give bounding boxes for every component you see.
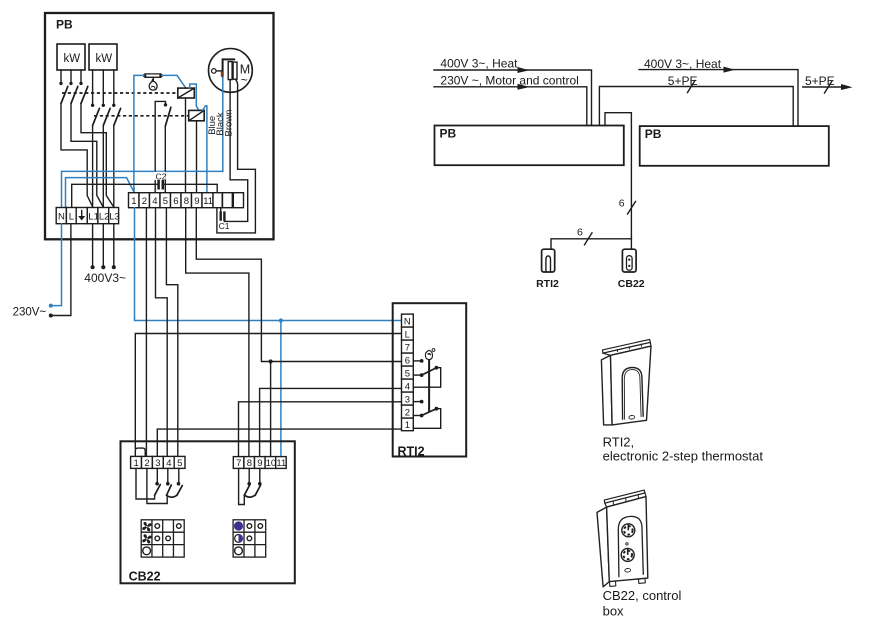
svg-text:RTI2: RTI2	[398, 445, 425, 459]
svg-text:RTI2: RTI2	[536, 278, 559, 290]
wire PB terminal 4 to CB22 terminal 4	[156, 208, 168, 457]
svg-text:6: 6	[619, 198, 625, 210]
svg-text:N: N	[58, 212, 65, 223]
svg-text:1: 1	[405, 420, 410, 431]
wire motor blue lead	[222, 77, 224, 171]
svg-text:CB22: CB22	[618, 278, 645, 290]
svg-text:PB: PB	[440, 127, 457, 141]
svg-text:PB: PB	[645, 127, 662, 141]
switch S-C2 contact dot	[164, 103, 167, 106]
feed line 400V to PB unit 1	[434, 70, 592, 126]
svg-text:10: 10	[266, 458, 277, 469]
wire K2 pole3 to terminal L3	[113, 126, 115, 208]
wire PB terminal 5 to CB22 terminal 5	[166, 208, 177, 457]
wire N supply (blue) from terminal N to 230V feed	[52, 224, 62, 306]
switch SW1 blade	[155, 485, 161, 496]
wire PB terminal 8 to CB22 terminal 8	[186, 208, 249, 457]
wire blue: N to terminal 1	[66, 178, 135, 208]
wire K2 coil A1 to terminal 9	[196, 121, 198, 193]
SECTION: RTI2 box	[393, 303, 467, 458]
svg-text:2: 2	[405, 408, 410, 419]
switch SW2 common from terminal 2	[147, 468, 167, 503]
svg-text:5: 5	[405, 369, 410, 380]
switch S-C2 blade	[165, 107, 171, 126]
motor winding 2	[233, 62, 237, 79]
relay coil K1	[178, 88, 195, 98]
svg-text:PB: PB	[56, 18, 73, 32]
slash mark 5+PE outgoing	[825, 81, 833, 93]
cable 6-core from PB 1 to CB22	[605, 113, 631, 250]
contact dots K2 poles	[91, 104, 94, 107]
bus wire L to capacitor C2	[72, 184, 158, 207]
contact dots K1 poles	[59, 82, 62, 85]
terminal numbers X2	[131, 196, 213, 207]
small circles right grid	[247, 524, 263, 541]
svg-text:8: 8	[184, 196, 189, 207]
wire L3 to 400V feed	[113, 224, 115, 266]
svg-text:CB22, control: CB22, control	[603, 588, 682, 603]
relay coil K2	[189, 110, 205, 120]
mechanical link K1 (dashed)	[62, 92, 177, 94]
switch S-C2 riser from terminal 4	[155, 101, 165, 192]
small circles left grid	[155, 524, 181, 541]
wire kW2 leads to contactor K2 poles	[93, 70, 114, 104]
wire L2 to 400V feed	[102, 224, 104, 266]
svg-text:L3: L3	[109, 212, 120, 223]
svg-text:5+PE: 5+PE	[805, 74, 835, 88]
capacitor C1 lead from spare terminal	[220, 208, 222, 212]
terminal strip X1 (N L earth L1 L2 L3)	[56, 208, 118, 224]
svg-text:C1: C1	[219, 221, 230, 231]
svg-text:kW: kW	[96, 53, 113, 65]
svg-text:L1: L1	[88, 212, 99, 223]
sensor bulb symbol	[425, 349, 435, 360]
wire common hook to terminal 4	[413, 368, 440, 388]
node 230V L (dot)	[49, 314, 53, 318]
svg-text:400V 3~, Heat: 400V 3~, Heat	[440, 57, 518, 71]
svg-text:11: 11	[203, 196, 213, 207]
switch SW3 contact from terminal 8	[248, 468, 250, 482]
heater element kW (group 1)	[57, 44, 85, 70]
thermostat switch blade 2-to-common	[422, 409, 437, 416]
switch SW3 blade pair with link	[244, 485, 249, 495]
wire K2 pole1 to terminal L1	[92, 126, 94, 208]
svg-text:7: 7	[236, 458, 241, 469]
wire blue: terminal 1 entry	[133, 188, 135, 193]
sensor link (mechanical)	[428, 360, 430, 412]
heater element kW (group 2)	[89, 44, 117, 70]
sensor stem	[152, 77, 154, 81]
svg-text:C2: C2	[156, 172, 167, 182]
wire blue: lamp right to relay K1 coil top	[162, 75, 186, 88]
off circle left grid	[143, 547, 151, 555]
motor M1 circle	[209, 49, 253, 93]
capacitor C2	[159, 180, 163, 190]
motor winding 1	[228, 62, 232, 80]
switch SW1 common from terminal 1	[136, 468, 155, 499]
fan icon row1	[141, 521, 152, 532]
svg-text:11: 11	[276, 458, 286, 469]
wire branch to CB22 terminal 10	[270, 362, 272, 457]
node 230V N (blue dot)	[49, 304, 53, 308]
switch SW3 common from terminal 7	[239, 468, 245, 504]
wire K1 coil A1 to terminal 8	[185, 98, 187, 193]
ground symbol (earth terminal)	[78, 211, 85, 221]
motor thermal contact	[212, 69, 223, 77]
drawing RTI2 thermostat (3D view)	[601, 339, 651, 425]
unit box PB 2	[640, 126, 829, 166]
svg-text:230V ~, Motor and control: 230V ~, Motor and control	[440, 73, 578, 87]
arrowhead 400V right	[724, 67, 736, 73]
svg-text:7: 7	[405, 343, 410, 354]
switch SW2 blade pair with link	[167, 485, 172, 495]
switch SW3 contact from terminal 9	[259, 468, 261, 482]
svg-text:2: 2	[144, 458, 149, 469]
switch SW2 contact from terminal 5	[178, 468, 180, 482]
svg-text:1: 1	[131, 196, 136, 207]
SECTION: device drawings	[597, 339, 763, 618]
wire L supply from terminal L to 230V feed	[52, 224, 71, 316]
enclosure CB22 (control box)	[121, 441, 295, 583]
svg-text:5: 5	[163, 196, 168, 207]
enclosure RTI2 (thermostat)	[393, 303, 467, 456]
sensor bulb (droplet)	[149, 81, 157, 90]
wire blue: K1 coil to K2 coil top	[190, 84, 199, 110]
SECTION: inter-unit wiring	[13, 208, 402, 457]
fan icon row2	[141, 533, 152, 544]
slash mark 6-core vertical	[628, 202, 636, 215]
wire common hook to terminal 1	[413, 409, 440, 429]
contactor K2 blades (3 poles)	[93, 108, 121, 125]
half-heat dot (half filled)	[235, 534, 243, 543]
svg-text:230V~: 230V~	[13, 306, 47, 318]
terminal strip CB22 1-5	[131, 456, 185, 468]
terminal strip X2 (1 2 4 5 6 8 9 11 + spares)	[129, 193, 244, 208]
off circle right grid	[235, 547, 243, 555]
arrowhead 230V line	[518, 84, 530, 90]
selector table heat-step (right grid)	[233, 520, 266, 557]
wire blue: N bus to motor blue lead	[62, 171, 223, 207]
contactor K1 blades (3 poles)	[61, 86, 88, 103]
svg-text:6: 6	[405, 356, 410, 367]
wire PB terminal 2 to CB22 terminal 2	[145, 208, 147, 457]
wire motor brown lead to terminal block	[217, 79, 256, 233]
svg-text:kW: kW	[64, 53, 81, 65]
terminal numbers 7-11	[236, 458, 286, 469]
knob 2 CB22	[621, 543, 634, 562]
switch SW2 contact from terminal 4	[167, 468, 169, 482]
wire RTI2 terminal 4 to CB22 terminal 9	[260, 388, 402, 456]
wire PB terminal 9 to RTI2 terminal 6	[196, 208, 401, 362]
svg-text:3: 3	[405, 395, 410, 406]
svg-text:Brown: Brown	[223, 110, 234, 137]
svg-text:2: 2	[142, 196, 147, 207]
wire kW1 leads to contactor K1 poles	[61, 70, 81, 82]
icon CB22 (control box)	[622, 249, 636, 272]
knob 1 CB22	[622, 524, 635, 537]
svg-text:9: 9	[194, 196, 199, 207]
SECTION: block diagram top right	[434, 57, 853, 291]
arrowhead 400V line	[518, 67, 530, 73]
wire K1 pole3 to terminal L3	[81, 104, 114, 208]
svg-text:6: 6	[173, 196, 178, 207]
label C2	[154, 172, 167, 182]
wire K1 pole2 to terminal L2	[71, 104, 103, 208]
wire net N branch (blue) to CB22 terminal 11	[280, 321, 282, 457]
svg-text:box: box	[603, 604, 624, 619]
svg-text:4: 4	[166, 458, 171, 469]
jumper arch CB22 terminals 1-2	[135, 448, 145, 456]
thermostat sensor holder bar	[144, 74, 162, 77]
svg-text:CB22: CB22	[129, 569, 161, 583]
slash mark 6-core horizontal	[585, 233, 593, 245]
svg-text:L: L	[405, 330, 410, 341]
enclosure PB (wiring box)	[45, 13, 274, 239]
svg-text:6: 6	[577, 227, 583, 239]
icon RTI2 (room thermostat)	[542, 249, 555, 272]
SECTION: CB22 box	[121, 441, 295, 583]
svg-text:~: ~	[241, 73, 248, 87]
terminal strip CB22 7-11	[233, 457, 286, 469]
svg-text:4: 4	[152, 196, 157, 207]
selector table fan-speed (left grid)	[141, 520, 184, 557]
slash mark 5+PE cable	[688, 81, 696, 93]
wire L1 to 400V feed	[92, 224, 94, 266]
wire RTI2 terminal 3 to CB22 terminal 7	[239, 402, 402, 457]
junction RTI2-6 net to CB22 terminal 10 (dot)	[269, 359, 273, 363]
svg-text:1: 1	[134, 458, 139, 469]
junction net N to CB22 (blue dot)	[279, 318, 283, 322]
svg-text:8: 8	[247, 458, 252, 469]
stub terminal 3 with contact dot	[413, 401, 420, 403]
svg-text:N: N	[404, 317, 411, 328]
svg-text:9: 9	[257, 458, 262, 469]
stub terminal 6 with contact dot	[413, 360, 420, 362]
svg-text:L2: L2	[99, 212, 110, 223]
wire motor black lead to capacitor C1	[224, 80, 247, 222]
wire net N (blue): PB terminal 1 to RTI2 N	[135, 208, 402, 321]
unit box PB 1	[435, 126, 624, 166]
svg-text:4: 4	[405, 382, 410, 393]
nodes 400V feed (dots)	[91, 265, 95, 269]
drawing CB22 control box (3D view)	[597, 490, 648, 587]
switch SW1 contact from terminal 3	[156, 468, 158, 482]
wire blue: K2 coil top-right to terminal 11	[203, 106, 207, 193]
wire switch S-C2 to terminal 5	[164, 126, 166, 193]
svg-text:3: 3	[155, 458, 160, 469]
stub terminal 2 with contact dot	[413, 415, 420, 417]
cable 5+PE outgoing with arrow	[803, 86, 843, 88]
terminal numbers 1-5	[134, 458, 183, 469]
stub terminal 5 with contact dot	[413, 374, 420, 376]
cable 6-core RTI2 to CB22	[551, 239, 631, 249]
bus wire C2 to spare terminal	[164, 184, 217, 192]
wire K1 pole1 to terminal L1	[61, 104, 93, 208]
terminal labels RTI2	[404, 317, 411, 432]
feed line 230V to PB unit 1	[434, 87, 587, 126]
svg-text:L: L	[69, 212, 74, 223]
SECTION: main PB schematic box	[45, 13, 274, 239]
wire RTI2 terminal L to CB22 terminal 1	[135, 334, 401, 449]
svg-text:5: 5	[177, 458, 182, 469]
svg-text:electronic 2-step thermostat: electronic 2-step thermostat	[603, 448, 764, 463]
cable 5+PE between PB units	[599, 87, 793, 127]
wire K2 pole2 to terminal L2	[102, 126, 104, 208]
terminal strip RTI2 (N L 7 6 5 4 3 2 1)	[402, 314, 414, 431]
svg-text:5+PE: 5+PE	[668, 74, 698, 88]
feed line 400V to PB unit 2	[639, 70, 798, 127]
wire RTI2 terminal 1 to CB22 terminal 3	[157, 429, 401, 456]
svg-text:RTI2,: RTI2,	[603, 434, 635, 449]
mechanical link K2 (dashed)	[94, 115, 188, 117]
capacitor C1	[221, 211, 225, 220]
svg-text:400V3~: 400V3~	[84, 271, 126, 285]
full-heat dot (filled)	[234, 521, 243, 530]
wire blue: lamp left to terminal 1 riser	[134, 75, 144, 190]
thermostat switch blade 5-to-common	[422, 368, 437, 375]
motor terminal bracket	[223, 59, 236, 77]
